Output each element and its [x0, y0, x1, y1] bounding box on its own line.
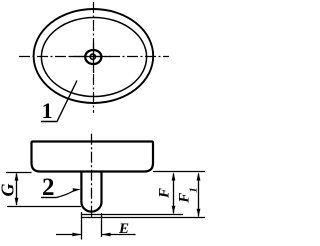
- leader arrow of 2: [57, 191, 75, 198]
- shaft 2 (side view): [81, 172, 101, 212]
- E left extension line: [81, 212, 83, 240]
- G bottom extension line: [7, 206, 81, 208]
- F bottom extension line: [81, 214, 183, 216]
- vertical centerline (side view): [91, 134, 93, 218]
- F1 dimension line: [198, 174, 200, 217]
- hub hole: [90, 54, 95, 59]
- G dimension line: [16, 174, 18, 206]
- inner rim ellipse (top view): [41, 18, 146, 97]
- disc body (side view): [32, 142, 154, 172]
- E dimension right arrow: [102, 234, 136, 236]
- svg-text:F: F: [156, 188, 172, 199]
- hub ellipse: [85, 50, 101, 64]
- E right extension line: [101, 213, 103, 237]
- svg-text:F1: F1: [176, 187, 199, 204]
- E dimension left arrow: [56, 234, 81, 236]
- svg-text:E: E: [118, 221, 129, 237]
- right extension line from disc bottom (F/F1 top): [153, 171, 205, 173]
- F dimension line: [173, 174, 175, 214]
- outer rim ellipse (top view): [34, 9, 154, 103]
- horizontal centerline (top view): [19, 56, 169, 58]
- F1 bottom extension line: [81, 217, 205, 219]
- underline of 2: [41, 197, 57, 199]
- solid crosshair through hub: [70, 56, 111, 58]
- left extension line from disc bottom (G top): [6, 172, 32, 174]
- svg-text:1: 1: [42, 98, 53, 123]
- vertical centerline (top view): [93, 2, 95, 113]
- leader line for 1: [41, 81, 77, 122]
- label F1: [176, 187, 199, 204]
- svg-text:G: G: [0, 184, 17, 197]
